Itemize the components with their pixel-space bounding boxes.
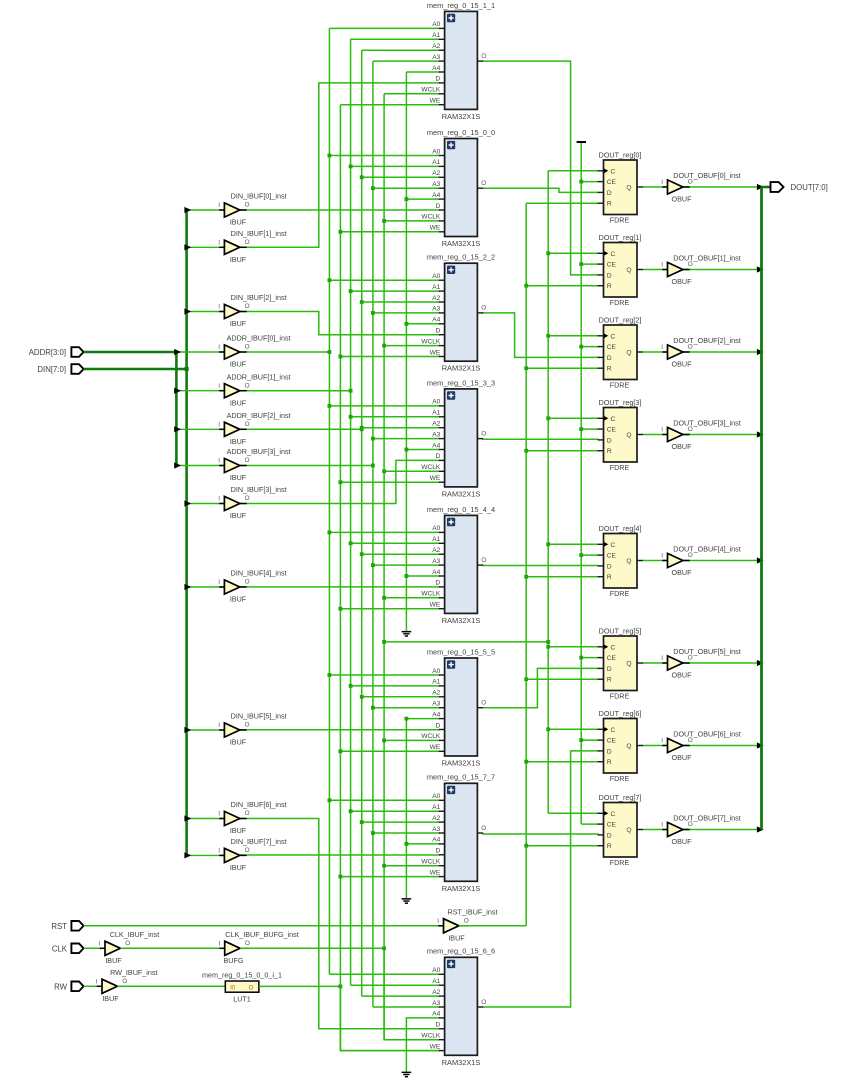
svg-text:CE: CE [607, 738, 617, 745]
buffer DOUT_OBUF[5]_inst (OBUF) [661, 647, 740, 680]
junction C trunk DOUT_reg[1] [546, 251, 550, 255]
svg-text:A0: A0 [432, 967, 440, 974]
wire DOUT_OBUF[1] out to DOUT bus [683, 269, 762, 271]
buffer DOUT_OBUF[2]_inst (OBUF) [661, 336, 740, 369]
svg-text:I: I [218, 496, 220, 503]
flip-flop DOUT_reg[0] (FDRE) [598, 150, 643, 224]
junction mem_reg_0_15_7_7 A1 [349, 809, 353, 813]
svg-text:CE: CE [607, 344, 617, 351]
svg-text:C: C [611, 644, 616, 651]
svg-text:D: D [607, 666, 612, 673]
wire DIN5: DIN_IBUF[5] out to mem_reg_0_15_5_5 D [240, 729, 440, 731]
svg-text:D: D [436, 76, 441, 83]
svg-text:C: C [611, 811, 616, 818]
wire net A4/GND trunk segment B [405, 719, 407, 899]
wire mem_reg_0_15_3_3 WE branch [340, 481, 439, 483]
svg-text:DOUT_reg[6]: DOUT_reg[6] [599, 709, 642, 718]
svg-text:A2: A2 [432, 421, 440, 428]
wire mem_reg_0_15_3_3 A1 branch [351, 416, 440, 418]
svg-text:ADDR_IBUF[1]_inst: ADDR_IBUF[1]_inst [227, 372, 291, 381]
junction clk link at C trunk [546, 640, 550, 644]
svg-text:A4: A4 [432, 711, 440, 718]
svg-text:A2: A2 [432, 547, 440, 554]
svg-text:IBUF: IBUF [230, 473, 247, 482]
svg-text:RW: RW [54, 982, 67, 991]
svg-text:I: I [218, 848, 220, 855]
wire DIN_IBUF[2] input tap [187, 311, 225, 313]
wire DIN4: DIN_IBUF[4] out to mem_reg_0_15_4_4 D [240, 586, 440, 588]
svg-text:I: I [661, 344, 663, 351]
wire DOUT_reg[7] Q to DOUT_OBUF[7] [642, 829, 668, 831]
svg-text:R: R [607, 677, 612, 684]
lut mem_reg_0_15_0_0_i_1 (LUT1) [225, 981, 259, 992]
svg-text:D: D [436, 453, 441, 460]
svg-text:CE: CE [607, 427, 617, 434]
svg-text:IBUF: IBUF [230, 437, 247, 446]
wire mem_reg_0_15_1_1 A2 branch [362, 49, 440, 51]
wire CLK_IBUF out to BUFG [120, 947, 224, 949]
svg-text:DIN_IBUF[4]_inst: DIN_IBUF[4]_inst [231, 569, 287, 578]
wire mem_reg_0_15_7_7 A1 branch [351, 810, 440, 812]
svg-text:I: I [661, 822, 663, 829]
svg-text:RAM32X1S: RAM32X1S [442, 616, 481, 625]
svg-text:IBUF: IBUF [230, 511, 247, 520]
svg-text:A1: A1 [432, 284, 440, 291]
svg-text:mem_reg_0_15_7_7: mem_reg_0_15_7_7 [427, 773, 495, 782]
wire DIN_IBUF[4] input tap [187, 586, 225, 588]
junction mem_reg_0_15_5_5 A3 [371, 706, 375, 710]
wire mem_reg_0_15_2_2 WCLK branch [384, 345, 440, 347]
svg-text:A1: A1 [432, 410, 440, 417]
svg-text:D: D [436, 1022, 441, 1029]
svg-text:Q: Q [626, 827, 631, 834]
wire DOUT_reg[4] Q to DOUT_OBUF[4] [642, 560, 668, 562]
wire mem_reg_0_15_3_3 O to DOUT_reg[3] D [482, 438, 599, 440]
wire DOUT_reg[1] C branch [548, 252, 599, 254]
svg-text:A4: A4 [432, 65, 440, 72]
svg-text:D: D [607, 832, 612, 839]
wire RST port to RST_IBUF [84, 925, 444, 927]
svg-text:IBUF: IBUF [230, 360, 247, 369]
svg-text:OBUF: OBUF [672, 671, 693, 680]
buffer CLK_IBUF_BUFG_inst [220, 947, 225, 949]
svg-text:O: O [245, 722, 250, 729]
wire DIN7: DIN_IBUF[7] out to mem_reg_0_15_7_7 D [240, 854, 440, 856]
wire ADDR1: ADDR_IBUF[1] out to A1 trunk [240, 390, 351, 392]
svg-text:I: I [96, 979, 98, 986]
junction mem_reg_0_15_2_2 A4 [405, 322, 409, 326]
wire mem_reg_0_15_0_0 O to DOUT_reg[0] D [482, 188, 599, 192]
wire mem_reg_0_15_4_4 A4 branch [406, 575, 439, 577]
junction mem_reg_0_15_4_4 A3 [371, 563, 375, 567]
wire ADDR_IBUF[1] input tap [176, 390, 224, 392]
svg-text:DIN_IBUF[5]_inst: DIN_IBUF[5]_inst [231, 712, 287, 721]
junction mem_reg_0_15_5_5 WE [339, 749, 343, 753]
svg-text:A0: A0 [432, 399, 440, 406]
junction R trunk DOUT_reg[5] [524, 677, 528, 681]
junction mem_reg_0_15_2_2 WCLK [382, 344, 386, 348]
svg-text:O: O [481, 700, 486, 707]
junction mem_reg_0_15_7_7 WE [339, 875, 343, 879]
svg-text:OBUF: OBUF [672, 360, 693, 369]
svg-text:RAM32X1S: RAM32X1S [442, 112, 481, 121]
svg-text:I: I [99, 941, 101, 948]
svg-text:D: D [436, 722, 441, 729]
svg-text:R: R [607, 283, 612, 290]
wire mem_reg_0_15_4_4 WE branch [340, 608, 439, 610]
svg-text:BUFG: BUFG [224, 956, 244, 965]
svg-text:A1: A1 [432, 679, 440, 686]
svg-text:DOUT_reg[2]: DOUT_reg[2] [599, 315, 642, 324]
wire DOUT_reg[6] Q to DOUT_OBUF[6] [642, 745, 668, 747]
svg-text:A0: A0 [432, 525, 440, 532]
wire DOUT_OBUF[2] out to DOUT bus [683, 351, 762, 353]
svg-text:FDRE: FDRE [610, 774, 630, 783]
svg-text:I: I [661, 427, 663, 434]
bus tap arrow DOUT[7] [757, 826, 764, 832]
svg-text:ADDR_IBUF[0]_inst: ADDR_IBUF[0]_inst [227, 334, 291, 343]
svg-text:IBUF: IBUF [230, 218, 247, 227]
svg-text:DOUT_OBUF[5]_inst: DOUT_OBUF[5]_inst [673, 647, 741, 656]
wire net A3 trunk (addr bit3) [372, 61, 374, 1007]
svg-text:O: O [245, 940, 250, 947]
svg-text:R: R [607, 201, 612, 208]
svg-text:I: I [218, 344, 220, 351]
wire DIN_IBUF[3] input tap [187, 503, 225, 505]
wire DOUT_OBUF[7] out to DOUT bus [683, 829, 762, 831]
svg-text:O: O [464, 918, 469, 925]
svg-text:O: O [249, 986, 254, 992]
svg-text:R: R [607, 366, 612, 373]
svg-text:I: I [218, 722, 220, 729]
ground below mem_reg_0_15_7_7 [402, 898, 412, 900]
svg-text:A3: A3 [432, 1000, 440, 1007]
svg-text:O: O [245, 847, 250, 854]
flip-flop DOUT_reg[1] (FDRE) [598, 233, 643, 307]
svg-text:O: O [481, 180, 486, 187]
svg-text:WCLK: WCLK [421, 733, 441, 740]
buffer CLK_IBUF_inst [100, 947, 105, 949]
svg-text:IBUF: IBUF [105, 956, 122, 965]
svg-text:DIN_IBUF[7]_inst: DIN_IBUF[7]_inst [231, 837, 287, 846]
svg-text:OBUF: OBUF [672, 837, 693, 846]
wire DOUT_reg[2] C branch [548, 335, 599, 337]
junction CE trunk DOUT_reg[5] [579, 656, 583, 660]
junction mem_reg_0_15_3_3 WE [339, 480, 343, 484]
wire CLK port to CLK_IBUF [84, 947, 105, 949]
buffer DIN_IBUF[1]_inst (IBUF) [218, 229, 286, 264]
junction mem_reg_0_15_5_5 A1 [349, 684, 353, 688]
svg-text:A3: A3 [432, 558, 440, 565]
bus tap arrow ADDR_IBUF[0] [174, 349, 181, 355]
svg-text:I: I [218, 458, 220, 465]
wire mem_reg_0_15_1_1 A1 branch [351, 38, 440, 40]
buffer DOUT_OBUF[1]_inst (OBUF) [661, 253, 740, 286]
junction mem_reg_0_15_7_7 A0 [328, 798, 332, 802]
wire DOUT_reg[7] R branch [526, 845, 599, 847]
wire mem_reg_0_15_6_6 WE branch [340, 1050, 439, 1052]
bus tap arrow DIN_IBUF[2] [184, 308, 191, 314]
svg-text:D: D [607, 272, 612, 279]
bus tap arrow DOUT[1] [757, 266, 764, 272]
svg-text:FDRE: FDRE [610, 463, 630, 472]
svg-text:I0: I0 [230, 986, 236, 992]
svg-text:CLK_IBUF_inst: CLK_IBUF_inst [110, 930, 160, 939]
wire net WCLK trunk (clk) [383, 94, 385, 1040]
junction mem_reg_0_15_3_3 A2 [360, 426, 364, 430]
svg-text:RAM32X1S: RAM32X1S [442, 489, 481, 498]
svg-text:I: I [661, 738, 663, 745]
wire DIN0: DIN_IBUF[0] out to mem_reg_0_15_0_0 D [240, 209, 440, 211]
svg-text:A3: A3 [432, 181, 440, 188]
junction DIN port-trunk [185, 367, 189, 371]
svg-text:D: D [436, 203, 441, 210]
svg-text:ADDR_IBUF[3]_inst: ADDR_IBUF[3]_inst [227, 447, 291, 456]
svg-text:WE: WE [430, 475, 441, 482]
wire ADDR0: ADDR_IBUF[0] out to A0 trunk [240, 351, 330, 353]
flip-flop DOUT_reg[2] (FDRE) [598, 315, 643, 389]
wire mem_reg_0_15_6_6 A3 branch [373, 1006, 440, 1008]
svg-text:mem_reg_0_15_6_6: mem_reg_0_15_6_6 [427, 947, 495, 956]
junction CE trunk DOUT_reg[1] [579, 262, 583, 266]
wire DOUT_reg[3] R branch [526, 450, 599, 452]
svg-text:IBUF: IBUF [230, 863, 247, 872]
wire DIN_IBUF[7] input tap [187, 854, 225, 856]
wire DOUT_reg[7] C branch [548, 812, 599, 814]
bus tap arrow ADDR_IBUF[3] [174, 462, 181, 468]
junction R trunk DOUT_reg[7] [524, 844, 528, 848]
svg-text:WCLK: WCLK [421, 214, 441, 221]
svg-text:R: R [607, 574, 612, 581]
wire clk link WCLK-trunk to C-trunk [384, 641, 548, 643]
junction mem_reg_0_15_0_0 A1 [349, 165, 353, 169]
svg-text:I: I [218, 811, 220, 818]
wire mem_reg_0_15_1_1 WE branch [340, 104, 439, 106]
wire mem_reg_0_15_0_0 A3 branch [373, 187, 440, 189]
svg-text:WCLK: WCLK [421, 859, 441, 866]
svg-text:IBUF: IBUF [230, 255, 247, 264]
wire mem_reg_0_15_7_7 A2 branch [362, 821, 440, 823]
junction C trunk DOUT_reg[3] [546, 416, 550, 420]
bus tap arrow DIN_IBUF[5] [184, 727, 191, 733]
wire DOUT_OBUF[5] out to DOUT bus [683, 662, 762, 664]
svg-text:I: I [219, 941, 221, 948]
wire ADDR_IBUF[0] input tap [176, 351, 224, 353]
svg-text:OBUF: OBUF [672, 195, 693, 204]
buffer DOUT_OBUF[4]_inst (OBUF) [661, 544, 740, 577]
junction R trunk DOUT_reg[6] [524, 760, 528, 764]
svg-text:A3: A3 [432, 306, 440, 313]
wire DOUT_OBUF[3] out to DOUT bus [683, 434, 762, 436]
svg-text:FDRE: FDRE [610, 298, 630, 307]
wire mem_reg_0_15_2_2 A1 branch [351, 290, 440, 292]
bus tap arrow DOUT[4] [757, 557, 764, 563]
flip-flop DOUT_reg[6] (FDRE) [598, 709, 643, 783]
wire DOUT_reg[6] C branch [548, 728, 599, 730]
wire mem_reg_0_15_5_5 A0 branch [329, 674, 439, 676]
junction mem_reg_0_15_0_0 A3 [371, 186, 375, 190]
svg-text:FDRE: FDRE [610, 589, 630, 598]
svg-text:D: D [436, 848, 441, 855]
wire mem_reg_0_15_5_5 A2 branch [362, 696, 440, 698]
svg-text:O: O [481, 557, 486, 564]
svg-text:RAM32X1S: RAM32X1S [442, 239, 481, 248]
svg-text:O: O [245, 382, 250, 389]
wire mem_reg_0_15_3_3 A3 branch [373, 438, 440, 440]
svg-text:ADDR[3:0]: ADDR[3:0] [29, 348, 66, 357]
junction CE trunk DOUT_reg[2] [579, 345, 583, 349]
junction C trunk DOUT_reg[2] [546, 334, 550, 338]
svg-text:O: O [481, 53, 486, 60]
wire mem_reg_0_15_4_4 O to DOUT_reg[4] D [482, 565, 599, 567]
svg-text:DOUT_OBUF[0]_inst: DOUT_OBUF[0]_inst [673, 171, 741, 180]
svg-text:CLK: CLK [52, 944, 68, 953]
wire RW_IBUF out to LUT1 [117, 985, 225, 987]
wire WE trunk bottom to mem_reg_0_15_6_6 WE [340, 986, 439, 1050]
bus tap arrow DIN_IBUF[4] [184, 584, 191, 590]
svg-text:mem_reg_0_15_0_0_i_1: mem_reg_0_15_0_0_i_1 [202, 970, 282, 979]
svg-text:O: O [481, 825, 486, 832]
wire DIN_IBUF[1] input tap [187, 246, 225, 248]
svg-text:mem_reg_0_15_4_4: mem_reg_0_15_4_4 [427, 505, 495, 514]
wire mem_reg_0_15_2_2 A4 branch [406, 323, 439, 325]
svg-text:ADDR_IBUF[2]_inst: ADDR_IBUF[2]_inst [227, 411, 291, 420]
svg-text:O: O [245, 810, 250, 817]
buffer ADDR_IBUF[2]_inst (IBUF) [218, 411, 290, 446]
svg-text:A1: A1 [432, 159, 440, 166]
junction mem_reg_0_15_4_4 A4 [405, 574, 409, 578]
wire DOUT_reg[1] CE branch [581, 263, 599, 265]
svg-text:WE: WE [430, 1043, 441, 1050]
wire mem_reg_0_15_5_5 WCLK branch [384, 739, 440, 741]
buffer ADDR_IBUF[0]_inst (IBUF) [218, 334, 290, 369]
bus tap arrow DOUT[0] [757, 184, 764, 190]
wire mem_reg_0_15_0_0 A1 branch [351, 165, 440, 167]
wire mem_reg_0_15_3_3 A4 branch [406, 449, 439, 451]
wire ADDR bus port to trunk [84, 351, 177, 354]
svg-text:DOUT_reg[7]: DOUT_reg[7] [599, 793, 642, 802]
svg-text:DOUT_reg[4]: DOUT_reg[4] [599, 524, 642, 533]
junction R trunk DOUT_reg[2] [524, 366, 528, 370]
svg-text:R: R [607, 448, 612, 455]
wire mem_reg_0_15_0_0 WCLK branch [384, 220, 440, 222]
svg-text:CLK_IBUF_BUFG_inst: CLK_IBUF_BUFG_inst [225, 930, 299, 939]
svg-text:WE: WE [430, 869, 441, 876]
wire mem_reg_0_15_2_2 O to DOUT_reg[2] D [482, 313, 599, 358]
wire DOUT_reg[1] Q to DOUT_OBUF[1] [642, 269, 668, 271]
RAM32X1S mem_reg_0_15_3_3 [421, 378, 495, 498]
svg-text:CE: CE [607, 179, 617, 186]
buffer ADDR_IBUF[1]_inst (IBUF) [218, 372, 290, 407]
buffer DIN_IBUF[4]_inst (IBUF) [218, 569, 286, 604]
RAM32X1S mem_reg_0_15_5_5 [421, 647, 495, 767]
wire DOUT_reg[3] CE branch [581, 428, 599, 430]
svg-text:A2: A2 [432, 295, 440, 302]
wire mem_reg_0_15_0_0 A2 branch [362, 176, 440, 178]
svg-text:O: O [245, 495, 250, 502]
wire mem_reg_0_15_1_1 A3 branch [373, 60, 440, 62]
wire mem_reg_0_15_2_2 A2 branch [362, 301, 440, 303]
svg-text:IBUF: IBUF [230, 319, 247, 328]
svg-text:A3: A3 [432, 431, 440, 438]
svg-text:I: I [437, 918, 439, 925]
svg-text:RST_IBUF_inst: RST_IBUF_inst [448, 908, 498, 917]
wire mem_reg_0_15_5_5 A4 branch [406, 718, 439, 720]
svg-text:DOUT_OBUF[2]_inst: DOUT_OBUF[2]_inst [673, 336, 741, 345]
svg-text:DOUT_OBUF[4]_inst: DOUT_OBUF[4]_inst [673, 544, 741, 553]
wire DIN3: DIN_IBUF[3] out to mem_reg_0_15_3_3 D [240, 460, 440, 503]
svg-text:R: R [607, 759, 612, 766]
wire mem_reg_0_15_5_5 O to DOUT_reg[5] D [482, 668, 599, 707]
svg-text:IBUF: IBUF [230, 398, 247, 407]
svg-text:I: I [218, 383, 220, 390]
svg-text:A2: A2 [432, 690, 440, 697]
svg-text:A1: A1 [432, 32, 440, 39]
junction mem_reg_0_15_3_3 WCLK [382, 469, 386, 473]
svg-text:A4: A4 [432, 317, 440, 324]
wire net A2 trunk (addr bit2) [361, 50, 363, 996]
svg-text:O: O [245, 344, 250, 351]
svg-text:Q: Q [626, 660, 631, 667]
svg-text:DOUT_OBUF[1]_inst: DOUT_OBUF[1]_inst [673, 253, 741, 262]
junction mem_reg_0_15_3_3 A1 [349, 415, 353, 419]
svg-text:C: C [611, 251, 616, 258]
wire DOUT_reg[7] CE branch [581, 823, 599, 825]
svg-text:D: D [436, 580, 441, 587]
svg-text:WE: WE [430, 744, 441, 751]
svg-text:O: O [481, 999, 486, 1006]
wire DIN_IBUF[0] input tap [187, 209, 225, 211]
svg-text:FDRE: FDRE [610, 381, 630, 390]
bus tap arrow DIN_IBUF[1] [184, 244, 191, 250]
svg-text:O: O [245, 579, 250, 586]
junction R trunk DOUT_reg[1] [524, 284, 528, 288]
wire mem_reg_0_15_6_6 A0 branch [329, 973, 439, 975]
bus tap arrow DIN_IBUF[3] [184, 500, 191, 506]
buffer DIN_IBUF[0]_inst (IBUF) [218, 192, 286, 227]
wire net CE trunk (vcc) [580, 142, 582, 824]
svg-text:DIN_IBUF[6]_inst: DIN_IBUF[6]_inst [231, 800, 287, 809]
wire mem_reg_0_15_6_6 A1 branch [351, 984, 440, 986]
wire DOUT_reg[5] CE branch [581, 657, 599, 659]
svg-text:WCLK: WCLK [421, 1033, 441, 1040]
junction mem_reg_0_15_0_0 A0 [328, 154, 332, 158]
wire ADDR_IBUF[2] input tap [176, 428, 224, 430]
wire mem_reg_0_15_6_6 WCLK branch [384, 1039, 440, 1041]
svg-text:mem_reg_0_15_2_2: mem_reg_0_15_2_2 [427, 253, 495, 262]
wire mem_reg_0_15_1_1 WCLK branch [384, 93, 440, 95]
bus tap arrow DOUT[6] [757, 742, 764, 748]
wire BUFG out to WCLK trunk [240, 947, 384, 949]
svg-text:C: C [611, 168, 616, 175]
wire mem_reg_0_15_1_1 O to DOUT_reg[1] D [482, 61, 599, 275]
RAM32X1S mem_reg_0_15_4_4 [421, 505, 495, 625]
wire ADDR2: ADDR_IBUF[2] out to A2 trunk [240, 428, 362, 430]
svg-text:A0: A0 [432, 668, 440, 675]
svg-text:I: I [661, 262, 663, 269]
wire mem_reg_0_15_7_7 A3 branch [373, 832, 440, 834]
junction mem_reg_0_15_0_0 WE [339, 230, 343, 234]
junction mem_reg_0_15_4_4 A0 [328, 531, 332, 535]
junction mem_reg_0_15_3_3 A4 [405, 448, 409, 452]
flip-flop DOUT_reg[4] (FDRE) [598, 524, 643, 598]
wire mem_reg_0_15_2_2 A0 branch [329, 279, 439, 281]
svg-text:Q: Q [626, 432, 631, 439]
wire mem_reg_0_15_7_7 A4 branch [406, 843, 439, 845]
svg-text:LUT1: LUT1 [233, 995, 251, 1004]
svg-text:WCLK: WCLK [421, 338, 441, 345]
wire ADDR bus trunk [175, 352, 178, 466]
